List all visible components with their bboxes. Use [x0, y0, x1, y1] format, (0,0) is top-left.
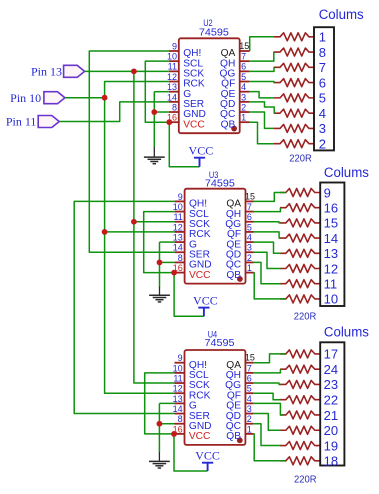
resistor R19 220R — [280, 380, 320, 388]
svg-text:8: 8 — [178, 253, 183, 263]
wire U3 QH to R10 — [254, 208, 281, 212]
connector Pin 10 (pentagon) — [44, 92, 65, 104]
svg-text:7: 7 — [247, 363, 252, 373]
svg-text:QB: QB — [221, 119, 236, 130]
svg-text:11: 11 — [173, 212, 182, 222]
svg-text:17: 17 — [324, 347, 338, 362]
U2 left pin 10 (SCL) stub — [169, 60, 179, 62]
svg-text:2: 2 — [241, 102, 246, 112]
svg-text:16: 16 — [324, 201, 338, 216]
ground symbol (U2) — [153, 147, 155, 157]
wire U3 GND pin — [160, 261, 175, 263]
svg-text:4: 4 — [247, 394, 252, 404]
svg-text:11: 11 — [168, 62, 177, 72]
svg-text:6: 6 — [319, 75, 326, 90]
U4 right pin 6 (QG) stub — [245, 382, 253, 384]
wire U3 VCC stub link — [173, 272, 176, 274]
wire U3.QH! to U4.SER (daisy chain) — [74, 201, 174, 413]
svg-text:4: 4 — [319, 106, 326, 121]
svg-text:5: 5 — [247, 222, 252, 232]
junction U3 VCC node — [171, 270, 177, 276]
svg-text:7: 7 — [247, 202, 252, 212]
wire SCK net Pin13 to U2.SCK — [85, 70, 169, 72]
U2 right pin 1 (QB) stub — [240, 121, 250, 123]
svg-text:220R: 220R — [289, 153, 312, 164]
svg-text:15: 15 — [324, 216, 338, 231]
IC U3 74595 body — [185, 189, 246, 284]
wire U2 QF to R4 — [250, 82, 275, 83]
wire U3 QC to R15 — [254, 262, 281, 283]
wire U2 GND pin — [154, 111, 169, 113]
U3 left pin 8 (GND) stub — [175, 261, 185, 263]
wire Pin10 to RCK node — [65, 97, 105, 99]
U4 right pin 5 (QF) stub — [245, 392, 253, 394]
svg-text:11: 11 — [324, 277, 338, 292]
wire U2 QA to R1 — [250, 37, 274, 51]
resistor R1 220R — [274, 33, 314, 41]
svg-text:3: 3 — [247, 404, 252, 414]
wire U4 QA to R17 — [253, 354, 285, 363]
U2 right pin 4 (QE) stub — [240, 91, 250, 93]
wire U4 QD to R22 — [253, 414, 280, 431]
junction U2 GND node — [151, 109, 157, 115]
resistor R12 220R — [280, 234, 320, 242]
U3 left pin 9 (QH!) stub — [175, 200, 185, 202]
svg-text:Colums: Colums — [324, 165, 369, 180]
svg-text:24: 24 — [324, 362, 338, 377]
U3 right pin 1 (QB) stub — [246, 272, 254, 274]
wire U3 QF to R12 — [254, 232, 281, 238]
svg-text:9: 9 — [324, 185, 331, 200]
U3 right pin 3 (QD) stub — [246, 251, 254, 253]
resistor R21 220R — [280, 411, 320, 419]
wire U4 QC to R23 — [253, 424, 280, 446]
svg-text:9: 9 — [178, 192, 183, 202]
resistor R10 220R — [280, 204, 320, 212]
wire U3 SCL to VCC net — [144, 212, 175, 273]
U2 right pin 5 (QF) stub — [240, 81, 250, 83]
resistor R15 220R — [280, 280, 320, 288]
U3 right pin 6 (QG) stub — [246, 221, 254, 223]
svg-text:20: 20 — [324, 423, 338, 438]
svg-text:1: 1 — [247, 263, 252, 273]
svg-text:14: 14 — [173, 404, 183, 414]
svg-text:14: 14 — [173, 243, 183, 253]
svg-text:9: 9 — [172, 41, 177, 51]
svg-text:QB: QB — [226, 270, 241, 281]
connector Pin 11 (pentagon) — [38, 116, 59, 128]
svg-text:15: 15 — [245, 191, 255, 201]
resistor R18 220R — [280, 365, 320, 373]
svg-text:6: 6 — [241, 62, 246, 72]
svg-text:Colums: Colums — [319, 7, 364, 22]
junction U2 VCC node — [166, 119, 172, 125]
U2 right pin 6 (QG) stub — [240, 70, 250, 72]
svg-text:7: 7 — [241, 52, 246, 62]
resistor R3 220R — [274, 63, 314, 71]
VCC power symbol (U3) — [198, 307, 209, 309]
svg-text:23: 23 — [324, 377, 338, 392]
svg-text:5: 5 — [247, 384, 252, 394]
svg-text:5: 5 — [241, 72, 246, 82]
junction U4 VCC node — [171, 431, 177, 437]
connector J2 Colums box — [320, 183, 344, 307]
wire U2 QH to R2 — [250, 52, 275, 61]
wire U3.SCK branch — [134, 221, 175, 223]
wire U3.RCK branch — [105, 231, 175, 233]
wire U4 QE to R21 — [253, 403, 282, 415]
U4 left pin 8 (GND) stub — [175, 423, 185, 425]
U2 right pin 15 (QA) stub — [240, 50, 250, 52]
wire U2 QG to R3 — [250, 67, 275, 71]
wire U3 QE to R13 — [254, 242, 281, 253]
wire U3 QB to R16 — [254, 273, 286, 299]
svg-text:8: 8 — [178, 414, 183, 424]
svg-text:8: 8 — [172, 102, 177, 112]
svg-text:VCC: VCC — [189, 270, 211, 281]
wire U2 SCL to VCC net — [145, 61, 169, 122]
svg-text:5: 5 — [319, 91, 326, 106]
U2 left pin 13 (G) stub — [169, 91, 179, 93]
svg-text:12: 12 — [167, 72, 177, 82]
wire Pin11 to U2.SER — [59, 102, 169, 122]
resistor R6 220R — [274, 109, 314, 117]
wire U2 QD to R6 — [250, 102, 275, 113]
wire U3 VCC pin to power symbol — [174, 273, 204, 317]
wire U3 G pin — [160, 241, 175, 243]
U2 left pin 16 (VCC) stub — [169, 121, 179, 123]
svg-text:6: 6 — [247, 373, 252, 383]
U4 left pin 12 (RCK) stub — [175, 392, 185, 394]
svg-text:3: 3 — [319, 121, 326, 136]
resistor R23 220R — [280, 442, 320, 450]
junction RCK at Pin10 wire — [102, 95, 108, 101]
U4 left pin 16 (VCC) stub — [175, 433, 185, 435]
ground symbol (U3) — [159, 287, 161, 296]
U4 right pin 2 (QC) stub — [245, 423, 253, 425]
VCC power symbol (U2) — [194, 157, 205, 159]
svg-text:15: 15 — [239, 41, 249, 51]
svg-text:14: 14 — [167, 92, 177, 102]
svg-text:74595: 74595 — [199, 26, 229, 38]
svg-text:VCC: VCC — [193, 294, 218, 308]
wire U4 GND pin — [159, 423, 174, 425]
wire U2 G pin — [154, 91, 169, 93]
U2 left pin 11 (SCK) stub — [169, 70, 179, 72]
svg-text:2: 2 — [247, 414, 252, 424]
connector J1 Colums box — [314, 27, 334, 150]
svg-text:Pin 10: Pin 10 — [10, 91, 41, 105]
connector Pin 13 (pentagon) — [64, 65, 85, 77]
wire U4 QG to R19 — [253, 383, 280, 384]
U2 left pin 8 (GND) stub — [169, 111, 179, 113]
U3 left pin 16 (VCC) stub — [175, 272, 185, 274]
U2 left pin 14 (SER) stub — [169, 101, 179, 103]
svg-text:4: 4 — [241, 82, 246, 92]
U3 left pin 11 (SCK) stub — [175, 221, 185, 223]
svg-text:Pin 13: Pin 13 — [31, 65, 62, 79]
wire U3 G to GND tie — [159, 242, 161, 286]
svg-text:15: 15 — [245, 353, 255, 363]
resistor R2 220R — [274, 48, 314, 56]
U2 right pin 2 (QC) stub — [240, 111, 250, 113]
resistor R5 220R — [274, 94, 314, 102]
svg-text:13: 13 — [173, 394, 183, 404]
svg-text:22: 22 — [324, 393, 338, 408]
U2 left pin 9 (QH!) stub — [169, 50, 179, 52]
U4 right pin 1 (QB) stub — [245, 433, 253, 435]
wire U2 QE to R5 — [250, 92, 274, 98]
svg-text:11: 11 — [173, 373, 182, 383]
svg-text:VCC: VCC — [189, 144, 214, 158]
resistor R14 220R — [280, 265, 320, 273]
U3 left pin 12 (RCK) stub — [175, 231, 185, 233]
svg-text:10: 10 — [324, 292, 338, 307]
IC U4 74595 body — [185, 350, 246, 445]
svg-text:14: 14 — [324, 231, 338, 246]
resistor R17 220R — [280, 350, 320, 358]
junction U4 GND node — [157, 421, 163, 427]
wire U2 VCC pin to power symbol — [169, 122, 199, 167]
svg-text:9: 9 — [178, 353, 183, 363]
svg-text:74595: 74595 — [205, 177, 235, 189]
junction SCK at U2 row — [131, 68, 137, 74]
wire U2.QH! to U3.SER (daisy chain) — [89, 51, 174, 252]
resistor R4 220R — [274, 79, 314, 87]
svg-text:Pin 11: Pin 11 — [6, 115, 37, 129]
svg-text:10: 10 — [167, 52, 177, 62]
svg-text:220R: 220R — [294, 475, 317, 486]
U3 right pin 2 (QC) stub — [246, 261, 254, 263]
U3 left pin 13 (G) stub — [175, 241, 185, 243]
resistor R9 220R — [280, 189, 320, 197]
junction SCK at U3 row — [131, 219, 137, 225]
IC U3 pin-1 marker dot — [237, 276, 243, 282]
U3 right pin 15 (QA) stub — [246, 200, 254, 202]
U3 left pin 10 (SCL) stub — [175, 211, 185, 213]
wire U4 VCC pin to power symbol — [174, 434, 208, 471]
svg-text:7: 7 — [319, 60, 326, 75]
U2 right pin 7 (QH) stub — [240, 60, 250, 62]
svg-text:10: 10 — [173, 363, 183, 373]
svg-text:19: 19 — [324, 438, 338, 453]
svg-text:13: 13 — [167, 82, 177, 92]
wire U3 QA to R9 — [254, 193, 286, 202]
svg-text:VCC: VCC — [189, 431, 211, 442]
wire U4 QB to R24 — [253, 434, 285, 461]
U4 right pin 7 (QH) stub — [245, 372, 253, 374]
U4 left pin 11 (SCK) stub — [175, 382, 185, 384]
svg-text:1: 1 — [319, 30, 326, 45]
svg-text:74595: 74595 — [205, 337, 235, 349]
resistor R13 220R — [280, 249, 320, 257]
U4 left pin 9 (QH!) stub — [175, 362, 185, 364]
resistor R24 220R — [280, 457, 320, 465]
resistor R11 220R — [280, 219, 320, 227]
resistor R7 220R — [274, 124, 314, 132]
wire U4 SCL to VCC net — [145, 373, 175, 434]
resistor R20 220R — [280, 396, 320, 404]
svg-text:4: 4 — [247, 232, 252, 242]
IC U2 pin-1 marker dot — [231, 126, 237, 132]
wire U4 VCC stub link — [173, 433, 176, 435]
svg-text:2: 2 — [319, 136, 326, 151]
wire U4 G pin — [159, 402, 174, 404]
junction U3 GND node — [157, 260, 163, 266]
wire U2 VCC stub link — [168, 121, 171, 123]
U4 left pin 13 (G) stub — [175, 402, 185, 404]
wire U2 QB to R8 — [250, 122, 274, 144]
U3 right pin 5 (QF) stub — [246, 231, 254, 233]
U4 left pin 14 (SER) stub — [175, 413, 185, 415]
U2 right pin 3 (QD) stub — [240, 101, 250, 103]
svg-text:2: 2 — [247, 253, 252, 263]
IC U2 74595 body — [179, 38, 240, 133]
VCC power symbol (U4) — [202, 462, 213, 464]
U2 left pin 12 (RCK) stub — [169, 81, 179, 83]
svg-text:3: 3 — [241, 92, 246, 102]
svg-text:12: 12 — [173, 222, 183, 232]
svg-text:13: 13 — [173, 232, 183, 242]
svg-text:21: 21 — [324, 408, 338, 423]
wire U2 QC to R7 — [250, 112, 274, 128]
svg-text:12: 12 — [173, 384, 183, 394]
wire U3 QG to R11 — [254, 222, 281, 223]
wire U3 QD to R14 — [254, 252, 281, 268]
svg-text:8: 8 — [319, 45, 326, 60]
connector J3 Colums box — [320, 342, 344, 465]
wire RCK bus down to U3.RCK and U4.RCK — [105, 98, 175, 394]
resistor R16 220R — [280, 295, 320, 303]
U4 left pin 10 (SCL) stub — [175, 372, 185, 374]
svg-text:6: 6 — [247, 212, 252, 222]
svg-text:220R: 220R — [294, 312, 317, 323]
svg-text:Colums: Colums — [324, 324, 369, 339]
svg-text:13: 13 — [324, 246, 338, 261]
svg-text:VCC: VCC — [195, 449, 220, 463]
junction RCK at U3 row — [102, 229, 108, 235]
U3 right pin 7 (QH) stub — [246, 211, 254, 213]
svg-text:1: 1 — [247, 424, 252, 434]
svg-text:3: 3 — [247, 243, 252, 253]
IC U4 pin-1 marker dot — [237, 437, 243, 443]
svg-text:VCC: VCC — [183, 119, 205, 130]
svg-text:1: 1 — [241, 113, 246, 123]
wire U4 QH to R18 — [253, 369, 280, 373]
svg-text:12: 12 — [324, 261, 338, 276]
wire U4 G to GND tie — [158, 403, 160, 452]
U4 right pin 3 (QD) stub — [245, 413, 253, 415]
resistor R22 220R — [280, 426, 320, 434]
wire U2 G to GND tie — [153, 92, 155, 147]
wire RCK up to U2.RCK — [105, 82, 169, 98]
svg-text:18: 18 — [324, 454, 338, 469]
U3 left pin 14 (SER) stub — [175, 251, 185, 253]
resistor R8 220R — [274, 140, 314, 148]
svg-text:10: 10 — [173, 202, 183, 212]
ground symbol (U4) — [158, 452, 160, 461]
svg-text:QB: QB — [226, 431, 241, 442]
U4 right pin 15 (QA) stub — [245, 362, 253, 364]
U3 right pin 4 (QE) stub — [246, 241, 254, 243]
U4 right pin 4 (QE) stub — [245, 402, 253, 404]
wire U4 QF to R20 — [253, 393, 280, 400]
wire SCK bus down to U3.SCK and U4.SCK — [134, 71, 175, 383]
